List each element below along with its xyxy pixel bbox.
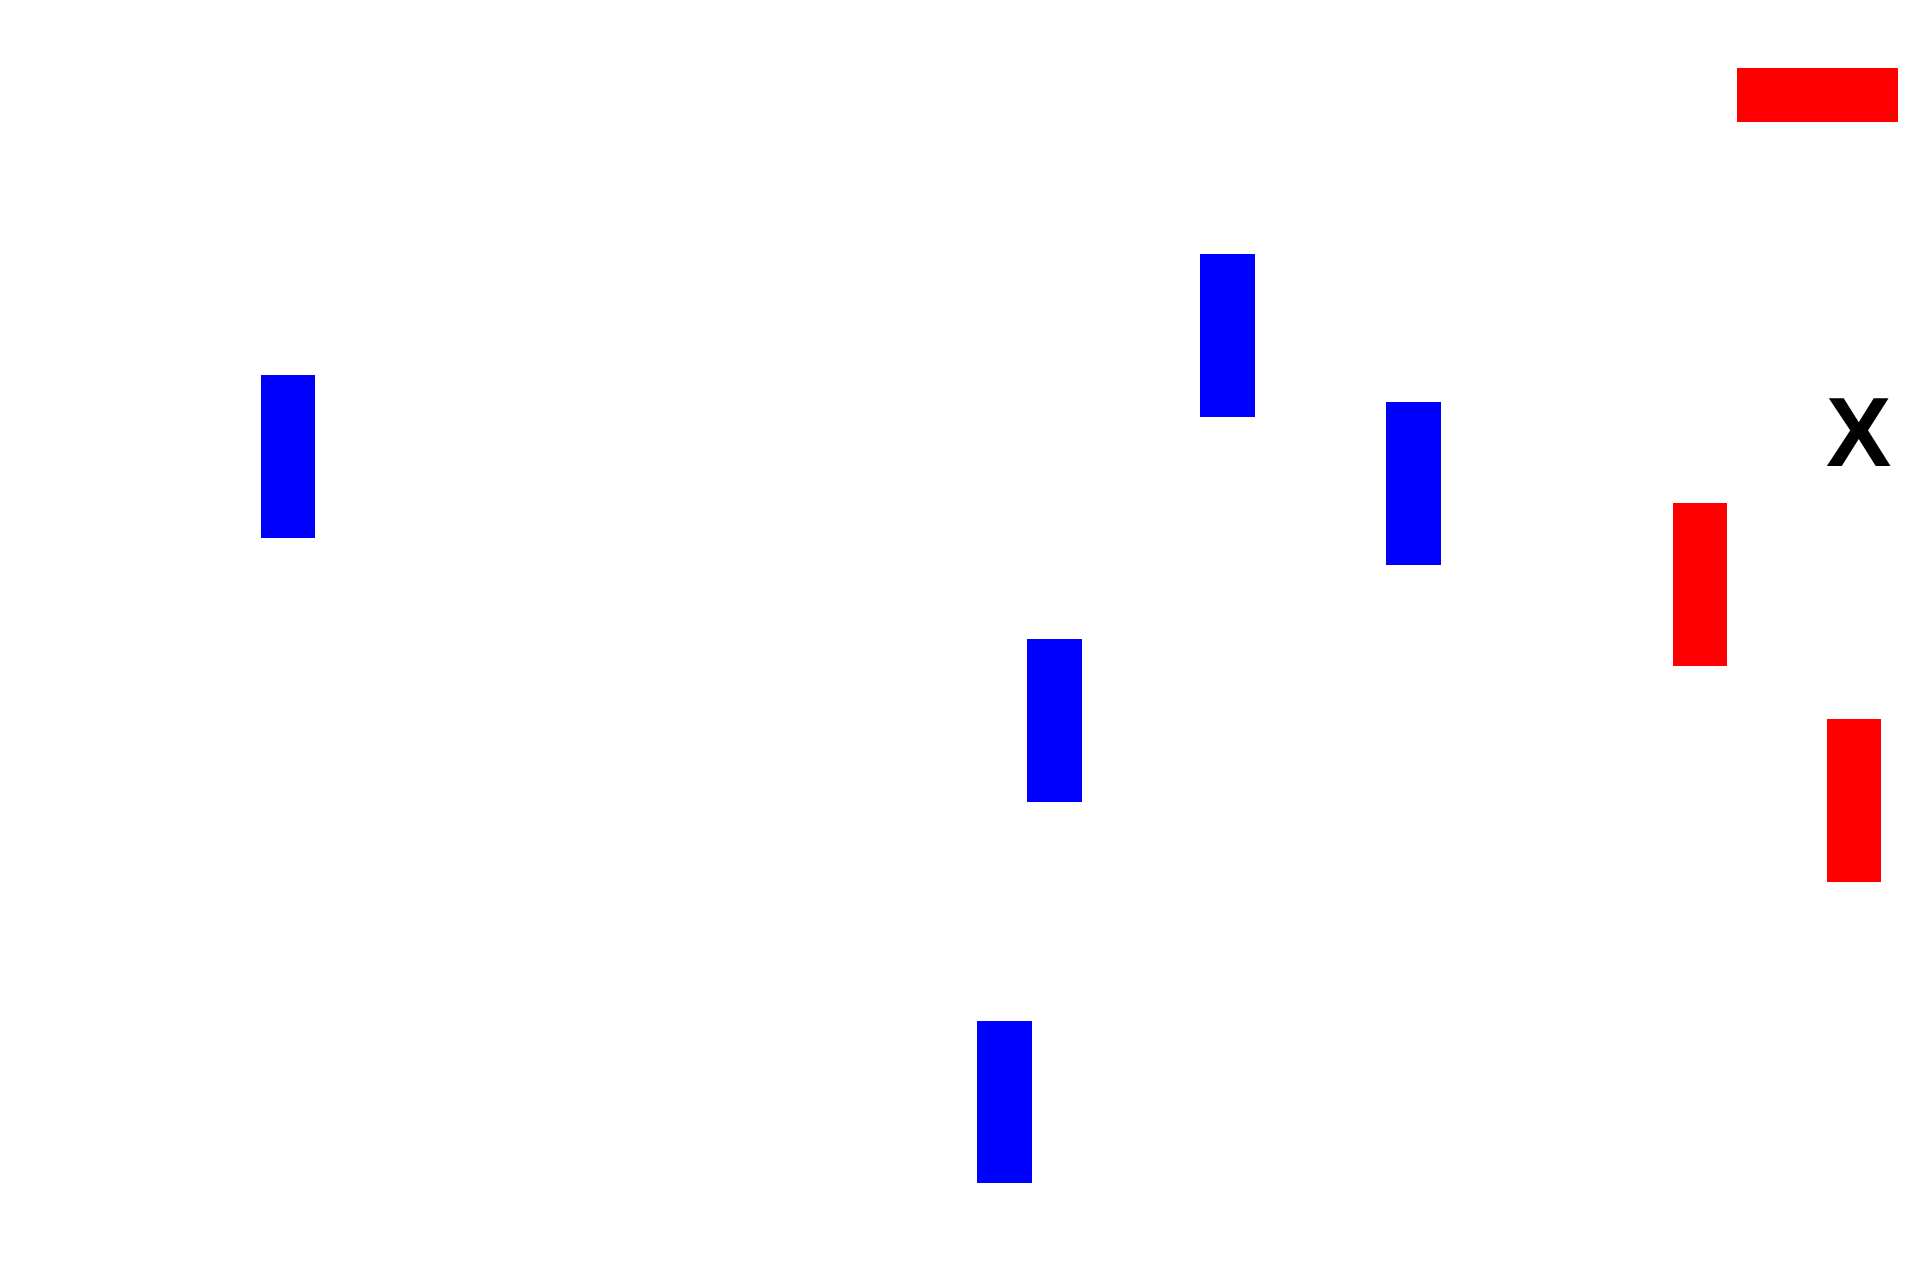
blue agent rectangle B4 — [1027, 639, 1082, 802]
red vertical rectangle R3 — [1827, 719, 1881, 882]
goal marker X — [1826, 383, 1891, 481]
blue agent rectangle B1 — [261, 375, 315, 538]
blue agent rectangle B2 — [1200, 254, 1255, 417]
red vertical rectangle R2 — [1673, 503, 1727, 666]
red horizontal rectangle R1 — [1737, 68, 1898, 122]
blue agent rectangle B3 — [1386, 402, 1441, 565]
blue agent rectangle B5 — [977, 1021, 1032, 1183]
